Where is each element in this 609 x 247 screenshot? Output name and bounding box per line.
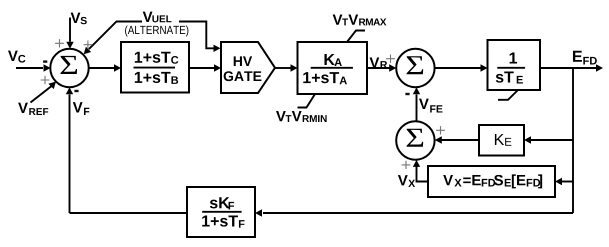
wire VX block to sum3 <box>413 160 428 182</box>
label VC <box>8 51 25 63</box>
wire washout to VF riser <box>70 212 188 214</box>
label VT VRMIN <box>276 111 327 122</box>
label VT VRMAX <box>333 14 387 25</box>
label VREF <box>18 103 48 115</box>
sign plus KE <box>436 126 445 134</box>
summing junction 2 <box>396 49 434 87</box>
wire VC input <box>16 64 51 71</box>
block KA <box>298 42 368 94</box>
wire bottom feedback <box>255 209 573 216</box>
wire HV gate to KA block <box>275 64 298 71</box>
label VUEL <box>143 12 172 23</box>
wire EFD output <box>540 64 603 71</box>
block washout sKF <box>187 187 255 237</box>
sign plus VS <box>55 39 64 47</box>
sign minus VFE <box>405 93 409 95</box>
block lead-lag TC TB <box>121 42 189 93</box>
wire branch to KE <box>524 136 573 143</box>
wire VFE sum3 to sum2 <box>413 87 420 121</box>
label VF <box>73 102 90 115</box>
sign minus VC <box>43 60 47 62</box>
block VX saturation <box>428 166 555 197</box>
sign plus VX <box>402 161 411 169</box>
wire VUEL alternate input <box>84 22 142 55</box>
label VS <box>71 13 87 25</box>
limit mark VRMIN <box>298 94 316 108</box>
label VX <box>398 175 415 187</box>
limit mark VRMAX <box>347 31 365 43</box>
sign plus VUEL <box>84 41 93 49</box>
wire branch to VX block <box>555 178 573 185</box>
label VR <box>370 57 388 68</box>
wire VS input <box>66 18 73 49</box>
sign plus VR <box>386 55 395 63</box>
label ALTERNATE <box>125 25 188 36</box>
wire lead-lag to HV gate <box>189 64 221 71</box>
summing junction 1 <box>50 49 88 87</box>
wire KE to sum3 <box>435 136 479 143</box>
block KE <box>479 125 524 156</box>
wire VREF input <box>31 82 57 103</box>
wire EFD branch down <box>572 68 574 213</box>
label EFD <box>573 51 597 65</box>
label VFE <box>419 99 443 113</box>
wire sum2 to integrator <box>435 64 488 71</box>
HV gate <box>221 42 275 93</box>
wire KA to sum2, VR <box>367 64 396 71</box>
block integrator 1/sTE <box>488 40 541 90</box>
limit mark integrator <box>498 90 518 100</box>
wire VF feedback vertical <box>66 87 73 213</box>
wire VUEL to HV gate <box>179 22 221 53</box>
sign minus VF <box>74 90 78 92</box>
sign plus VREF <box>41 76 50 84</box>
summing junction 3 <box>396 121 434 159</box>
wire sum1 to lead-lag block <box>89 64 121 71</box>
